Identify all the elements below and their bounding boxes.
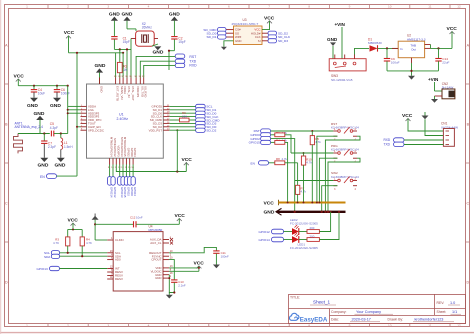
header pins GPIO bottom (group 2) <box>118 177 136 186</box>
wire GPIO2 row <box>271 139 295 181</box>
junction <box>168 277 170 279</box>
svg-text:3: 3 <box>107 5 109 9</box>
LED LED2 <box>284 225 308 235</box>
U1 bottom pin names (vertical) <box>110 137 138 157</box>
junction <box>67 252 69 254</box>
U3 right pin stubs <box>262 33 268 41</box>
svg-text:1: 1 <box>26 5 28 9</box>
svg-text:GPIO14: GPIO14 <box>110 187 114 198</box>
wire VDD_PST to VCC node <box>169 130 195 171</box>
svg-text:7: 7 <box>268 323 270 327</box>
svg-text:VCC: VCC <box>264 200 275 206</box>
svg-text:Sheet:: Sheet: <box>437 310 447 314</box>
capacitor C12 <box>95 215 179 227</box>
svg-text:XPD_DCDC: XPD_DCDC <box>88 128 104 132</box>
svg-text:GND: GND <box>327 37 338 42</box>
svg-text:4.7K: 4.7K <box>86 241 92 245</box>
svg-text:AUX_CL: AUX_CL <box>150 241 162 245</box>
capacitor C13 <box>171 280 186 293</box>
ground flag (switch) <box>327 37 338 59</box>
wire U2 out to VCC <box>431 45 453 49</box>
net bus GND <box>264 208 346 215</box>
ground under U2 <box>408 76 415 80</box>
U1 left pin names <box>88 105 104 133</box>
svg-text:SD_D2: SD_D2 <box>206 129 216 133</box>
wire PRG button pins to bus <box>291 153 360 212</box>
resistor R5 (RST pull) <box>310 131 321 203</box>
svg-text:4.7K: 4.7K <box>53 241 59 245</box>
wire U1 top pin drops <box>116 53 124 78</box>
connector CN2 <box>435 82 455 99</box>
svg-text:4: 4 <box>148 5 150 9</box>
svg-text:GND: GND <box>153 50 164 56</box>
labels SD column <box>206 105 220 133</box>
svg-text:GPIO4: GPIO4 <box>133 148 137 157</box>
junction <box>198 267 200 269</box>
svg-text:GND: GND <box>122 11 133 17</box>
svg-text:1: 1 <box>26 323 28 327</box>
svg-text:SDA: SDA <box>44 255 51 259</box>
wire crystal left node <box>114 39 131 78</box>
net flag VCC (U4 VDD) <box>194 261 205 269</box>
svg-text:GND: GND <box>169 11 180 17</box>
junction <box>76 52 78 54</box>
ground flag (CN1) <box>422 112 444 136</box>
header SD column <box>196 104 206 132</box>
net flag GPIO14 <box>259 237 284 242</box>
svg-text:Out: Out <box>411 47 416 51</box>
svg-text:GPIO4: GPIO4 <box>133 187 137 196</box>
junction <box>386 47 388 49</box>
svg-text:6: 6 <box>228 5 230 9</box>
svg-text:EXT_RSTB: EXT_RSTB <box>116 86 120 101</box>
labels GPIO bottom (vertical) <box>110 187 138 198</box>
svg-text:GND: GND <box>27 103 38 109</box>
svg-text:XTAL_OUT: XTAL_OUT <box>131 86 135 101</box>
svg-text:VCC: VCC <box>64 30 75 36</box>
switch SW3 <box>329 55 366 83</box>
U4 right pin names <box>149 238 162 281</box>
ground flag GND2 (crystal top) <box>122 11 137 31</box>
net flag VCC (U3) <box>262 15 275 29</box>
U4 right pin numbers <box>170 237 173 279</box>
junction dots on rail <box>33 85 35 87</box>
svg-text:GPIO14: GPIO14 <box>259 238 270 242</box>
svg-text:GND: GND <box>55 163 66 169</box>
wire SW2 button pins to bus <box>295 181 338 212</box>
svg-text:GND: GND <box>155 276 161 280</box>
svg-text:TITLE:: TITLE: <box>290 296 300 300</box>
svg-text:AD0: AD0 <box>115 258 121 262</box>
svg-text:2: 2 <box>67 5 69 9</box>
ground under U4 <box>166 293 173 299</box>
wire U3 GND pin <box>224 41 234 47</box>
svg-text:2.3pF: 2.3pF <box>48 145 56 149</box>
svg-text:15pF: 15pF <box>123 40 130 44</box>
connector CN1 <box>441 122 458 147</box>
net flag VCC (top-left rail) <box>14 74 25 82</box>
node dots on antenna line <box>43 132 45 134</box>
ground under CN2 <box>431 99 438 103</box>
wire CLKIN <box>95 239 107 241</box>
header P1 RST TXD RXD <box>175 54 197 68</box>
junction <box>338 211 340 213</box>
header U3 right <box>268 31 277 43</box>
svg-text:RXD: RXD <box>189 64 197 68</box>
resistor R11 (LED2) <box>307 212 331 234</box>
U1 top pin names (vertical) <box>100 86 148 101</box>
svg-text:GND: GND <box>264 210 275 216</box>
svg-text:RXD: RXD <box>384 138 391 142</box>
push button SW2 <box>331 171 359 191</box>
svg-text:5: 5 <box>188 323 190 327</box>
svg-text:26MHz: 26MHz <box>142 25 153 29</box>
svg-text:In: In <box>400 47 403 51</box>
svg-text:VDD3P3: VDD3P3 <box>136 86 140 98</box>
header RXD TXD (CN1) <box>384 138 405 147</box>
svg-text:CPOUT: CPOUT <box>151 258 161 262</box>
resistor R3 <box>53 237 70 253</box>
ground flag (MPU top) <box>92 214 99 241</box>
header pins GPIO bottom (group 1) <box>108 177 116 186</box>
U1 left pin stubs <box>81 106 87 130</box>
svg-text:C: C <box>466 201 469 205</box>
wire RST TXD RXD to U1 <box>136 56 175 77</box>
push button RST <box>331 122 359 142</box>
svg-text:+VIN: +VIN <box>428 77 439 82</box>
wire RST row <box>271 130 334 132</box>
ground flag above U1 GND pin <box>95 63 106 84</box>
svg-text:C: C <box>5 201 8 205</box>
wire antenna node to U1 LNA pins <box>68 86 81 134</box>
resistor on GPIO15 row <box>271 139 288 203</box>
ground under C4 <box>27 98 38 109</box>
crystal X2 <box>131 22 158 46</box>
U1 right pin names <box>149 105 163 133</box>
wire U1 right pins to SD header <box>169 106 195 126</box>
svg-text:SD_D1: SD_D1 <box>207 35 217 39</box>
svg-text:3: 3 <box>107 323 109 327</box>
wire regulator ground rail <box>387 63 439 76</box>
LED LED1 <box>284 233 308 243</box>
antenna ANT1 <box>14 121 50 153</box>
svg-text:1/1: 1/1 <box>452 310 457 314</box>
net bus VCC <box>264 200 346 207</box>
svg-text:SD_D3: SD_D3 <box>278 39 288 43</box>
junction dots on GND bus <box>294 211 332 213</box>
junction <box>94 223 96 225</box>
wire REGOUT loop to C11 <box>169 247 216 252</box>
ground under C11 <box>213 265 220 269</box>
svg-text:100nF: 100nF <box>61 92 70 96</box>
junction <box>168 50 170 52</box>
capacitor C4 <box>31 86 45 98</box>
LED1 label <box>290 243 318 251</box>
wire U4 GND pins <box>169 275 174 293</box>
U4 left pin stubs <box>107 240 113 279</box>
ground under U3 <box>221 47 227 50</box>
svg-text:GND: GND <box>235 39 241 43</box>
junction <box>72 229 74 231</box>
svg-text:GPIO15: GPIO15 <box>123 187 127 198</box>
ground flag crystal case <box>152 44 164 56</box>
header RST/GPIO0/GPIO2/GPIO15 <box>249 129 260 144</box>
svg-text:U0_TXD: U0_TXD <box>140 86 144 97</box>
capacitor C11 <box>213 251 229 265</box>
junction <box>303 152 305 154</box>
svg-text:8: 8 <box>308 5 310 9</box>
net flag GPIO13 <box>37 266 108 271</box>
svg-text:VCC: VCC <box>14 74 25 80</box>
svg-text:VDDA: VDDA <box>123 86 127 94</box>
U4 left pin names <box>115 238 124 281</box>
svg-text:GND: GND <box>34 111 45 117</box>
svg-text:GND: GND <box>95 63 106 69</box>
svg-text:R8: R8 <box>276 157 280 161</box>
svg-text:10uF: 10uF <box>38 92 45 96</box>
junction <box>410 70 412 72</box>
svg-text:Company:: Company: <box>331 310 347 314</box>
svg-text:CLKIN: CLKIN <box>115 238 124 242</box>
wire RXD TXD to CN1 <box>404 140 443 145</box>
svg-text:VDD_PST: VDD_PST <box>149 128 163 132</box>
resistor R6 on GPIO0 row <box>271 131 291 153</box>
svg-text:EN: EN <box>251 161 255 165</box>
svg-text:15pF: 15pF <box>178 40 185 44</box>
svg-text:11: 11 <box>428 5 431 9</box>
resistor R7 (EN pull) <box>296 163 307 203</box>
frame row letters <box>5 43 470 284</box>
net flag VCC (regulator out) <box>447 26 458 48</box>
svg-text:D: D <box>5 280 8 284</box>
wire SCL SDA rows <box>60 253 108 256</box>
svg-text:D: D <box>466 280 469 284</box>
capacitor C5 (series) <box>50 122 68 136</box>
svg-text:U0_RXD: U0_RXD <box>144 86 148 97</box>
svg-text:9: 9 <box>349 5 351 9</box>
wire SW3 to D1 <box>355 48 370 54</box>
net flag +VIN (switch) <box>335 22 346 59</box>
svg-text:Date:: Date: <box>331 318 339 322</box>
diode D1 <box>368 38 398 52</box>
title block <box>289 294 466 324</box>
svg-text:XTAL_IN: XTAL_IN <box>127 86 131 98</box>
header SCL SDA <box>44 251 60 259</box>
junction <box>311 130 313 132</box>
U1 pin numbers <box>81 76 170 169</box>
resistor R10 (PRG pull) <box>301 152 312 203</box>
svg-text:RESV: RESV <box>115 277 123 281</box>
svg-text:5: 5 <box>188 5 190 9</box>
capacitor C14 <box>435 48 449 71</box>
no-connect stubs AUX <box>170 238 173 245</box>
net flag VCC (U1 bottom) <box>182 157 193 165</box>
U1 bottom pin stubs <box>110 158 134 164</box>
svg-text:krothendorfer123: krothendorfer123 <box>415 318 444 322</box>
svg-text:4: 4 <box>148 323 150 327</box>
junction <box>176 170 178 172</box>
wire VDD3P3 bottom pin to VCC <box>116 162 186 172</box>
title block texts <box>290 296 446 322</box>
svg-text:FC-2012UGK-S2005: FC-2012UGK-S2005 <box>290 246 318 250</box>
svg-text:GND: GND <box>100 86 104 92</box>
svg-text:GPIO12: GPIO12 <box>259 230 270 234</box>
net flag EN <box>40 174 57 179</box>
svg-text:10nF: 10nF <box>136 215 143 219</box>
svg-text:GPIO0: GPIO0 <box>130 187 134 196</box>
wire U1 bottom pins to headers <box>110 165 134 177</box>
svg-text:EN: EN <box>40 175 45 179</box>
svg-text:C12: C12 <box>130 215 136 219</box>
svg-text:EasyEDA: EasyEDA <box>300 316 328 323</box>
svg-text:100nF: 100nF <box>221 255 229 259</box>
flash memory U3 <box>232 18 263 44</box>
U4 left pin numbers <box>110 237 113 279</box>
net flag VCC (C12) <box>175 213 186 224</box>
svg-text:2.4GHz: 2.4GHz <box>117 117 129 121</box>
wire RST button pin3 to bus <box>317 136 360 212</box>
svg-text:+VIN: +VIN <box>335 22 346 27</box>
svg-text:VCC: VCC <box>175 213 186 219</box>
capacitor C9 <box>384 48 400 71</box>
frame column ticks bottom <box>48 324 450 328</box>
net flag VCC (crystal rail) <box>64 30 123 53</box>
svg-text:ANTENNA_esp_2.4: ANTENNA_esp_2.4 <box>15 125 44 129</box>
svg-text:2.2nF: 2.2nF <box>178 284 186 288</box>
svg-text:12: 12 <box>457 5 461 9</box>
svg-text:GND: GND <box>38 163 49 169</box>
svg-text:7: 7 <box>268 5 270 9</box>
svg-text:4.7k: 4.7k <box>306 161 312 165</box>
svg-text:MBR0530: MBR0530 <box>368 41 382 45</box>
wire CPOUT to C13 <box>169 260 174 280</box>
U1 right pin stubs <box>163 106 169 130</box>
svg-text:GPIO13: GPIO13 <box>37 267 48 271</box>
ground under C7 <box>38 158 49 169</box>
header U3 left <box>218 28 227 40</box>
svg-text:Your Company: Your Company <box>356 310 381 314</box>
svg-text:TXD: TXD <box>384 142 391 146</box>
svg-text:VCC: VCC <box>402 113 413 119</box>
wire EN to CHIP_EN <box>57 53 81 176</box>
inductor L1 <box>61 134 73 158</box>
svg-text:GPIO15: GPIO15 <box>249 141 260 145</box>
svg-text:2020-03-17: 2020-03-17 <box>352 318 371 322</box>
svg-text:U1: U1 <box>119 112 124 116</box>
push button PRG <box>331 144 359 164</box>
net flag VCC (CN1) <box>402 113 443 131</box>
EasyEDA logo <box>290 313 328 323</box>
wire VDD VLOGIC to VCC <box>169 266 199 271</box>
svg-text:SK-12D02-VG5: SK-12D02-VG5 <box>331 78 353 82</box>
svg-text:GND: GND <box>50 103 61 109</box>
frame column ticks top <box>48 4 450 9</box>
U3 left pin stubs <box>226 30 234 37</box>
capacitor C1 <box>111 36 130 49</box>
ground flag GND3 (crystal C2) <box>169 11 180 36</box>
svg-text:Sheet_1: Sheet_1 <box>313 300 331 305</box>
svg-text:Drawn By:: Drawn By: <box>388 318 404 322</box>
capacitor C2 <box>171 36 186 50</box>
frame row ticks left and right <box>4 84 470 242</box>
LED2 label <box>290 218 318 226</box>
U3 pin names <box>235 28 242 43</box>
svg-text:4.7k: 4.7k <box>282 157 288 161</box>
wire VCC rail to C4/C6 <box>18 79 67 86</box>
resistor R8 on EN row <box>269 157 298 165</box>
junction dots on VCC bus <box>287 202 321 204</box>
svg-text:2: 2 <box>67 323 69 327</box>
svg-text:10: 10 <box>388 5 392 9</box>
resistor R12 (LED1) <box>307 212 339 242</box>
ground under L1 <box>55 158 66 169</box>
svg-text:4.7k: 4.7k <box>315 140 321 144</box>
svg-text:100uF: 100uF <box>391 60 400 64</box>
svg-text:1.5nH: 1.5nH <box>64 145 73 149</box>
junction <box>119 48 121 50</box>
resistor R2 <box>117 49 128 77</box>
ground flag above antenna <box>34 111 45 134</box>
ground flag GND1 (crystal C1) <box>109 11 120 36</box>
regulator U2 <box>392 33 431 63</box>
resistor R9 <box>180 111 190 122</box>
junction <box>437 47 439 49</box>
svg-text:1.0: 1.0 <box>450 301 455 305</box>
wire pullup rail <box>68 230 83 237</box>
net flag GPIO12 <box>259 229 284 234</box>
U1 top pin stubs <box>100 78 144 85</box>
net flag EN (right) <box>251 161 269 166</box>
svg-text:GPIO12: GPIO12 <box>113 187 117 198</box>
junction <box>67 109 69 111</box>
svg-text:VCC: VCC <box>182 157 193 163</box>
svg-text:6: 6 <box>228 323 230 327</box>
capacitor C7 <box>41 134 56 158</box>
op-amp U1 main module <box>87 84 164 158</box>
svg-text:4.3pF: 4.3pF <box>50 126 58 130</box>
svg-text:REV:: REV: <box>437 301 445 305</box>
junction <box>76 126 78 128</box>
ground under C6 <box>50 98 61 109</box>
capacitor C6 <box>54 86 70 98</box>
svg-text:22uF: 22uF <box>442 60 449 64</box>
wire crystal right node to C2 <box>169 51 174 70</box>
net flag +VIN (CN2) <box>428 77 442 91</box>
accelerometer U4 MPU6050 <box>113 225 163 291</box>
U4 right pin stubs <box>163 240 169 279</box>
net flag VCC (MPU pullups) <box>68 218 79 230</box>
resistor R4b <box>80 237 92 256</box>
svg-text:GND: GND <box>109 11 120 17</box>
svg-text:SI: SI <box>258 39 261 43</box>
